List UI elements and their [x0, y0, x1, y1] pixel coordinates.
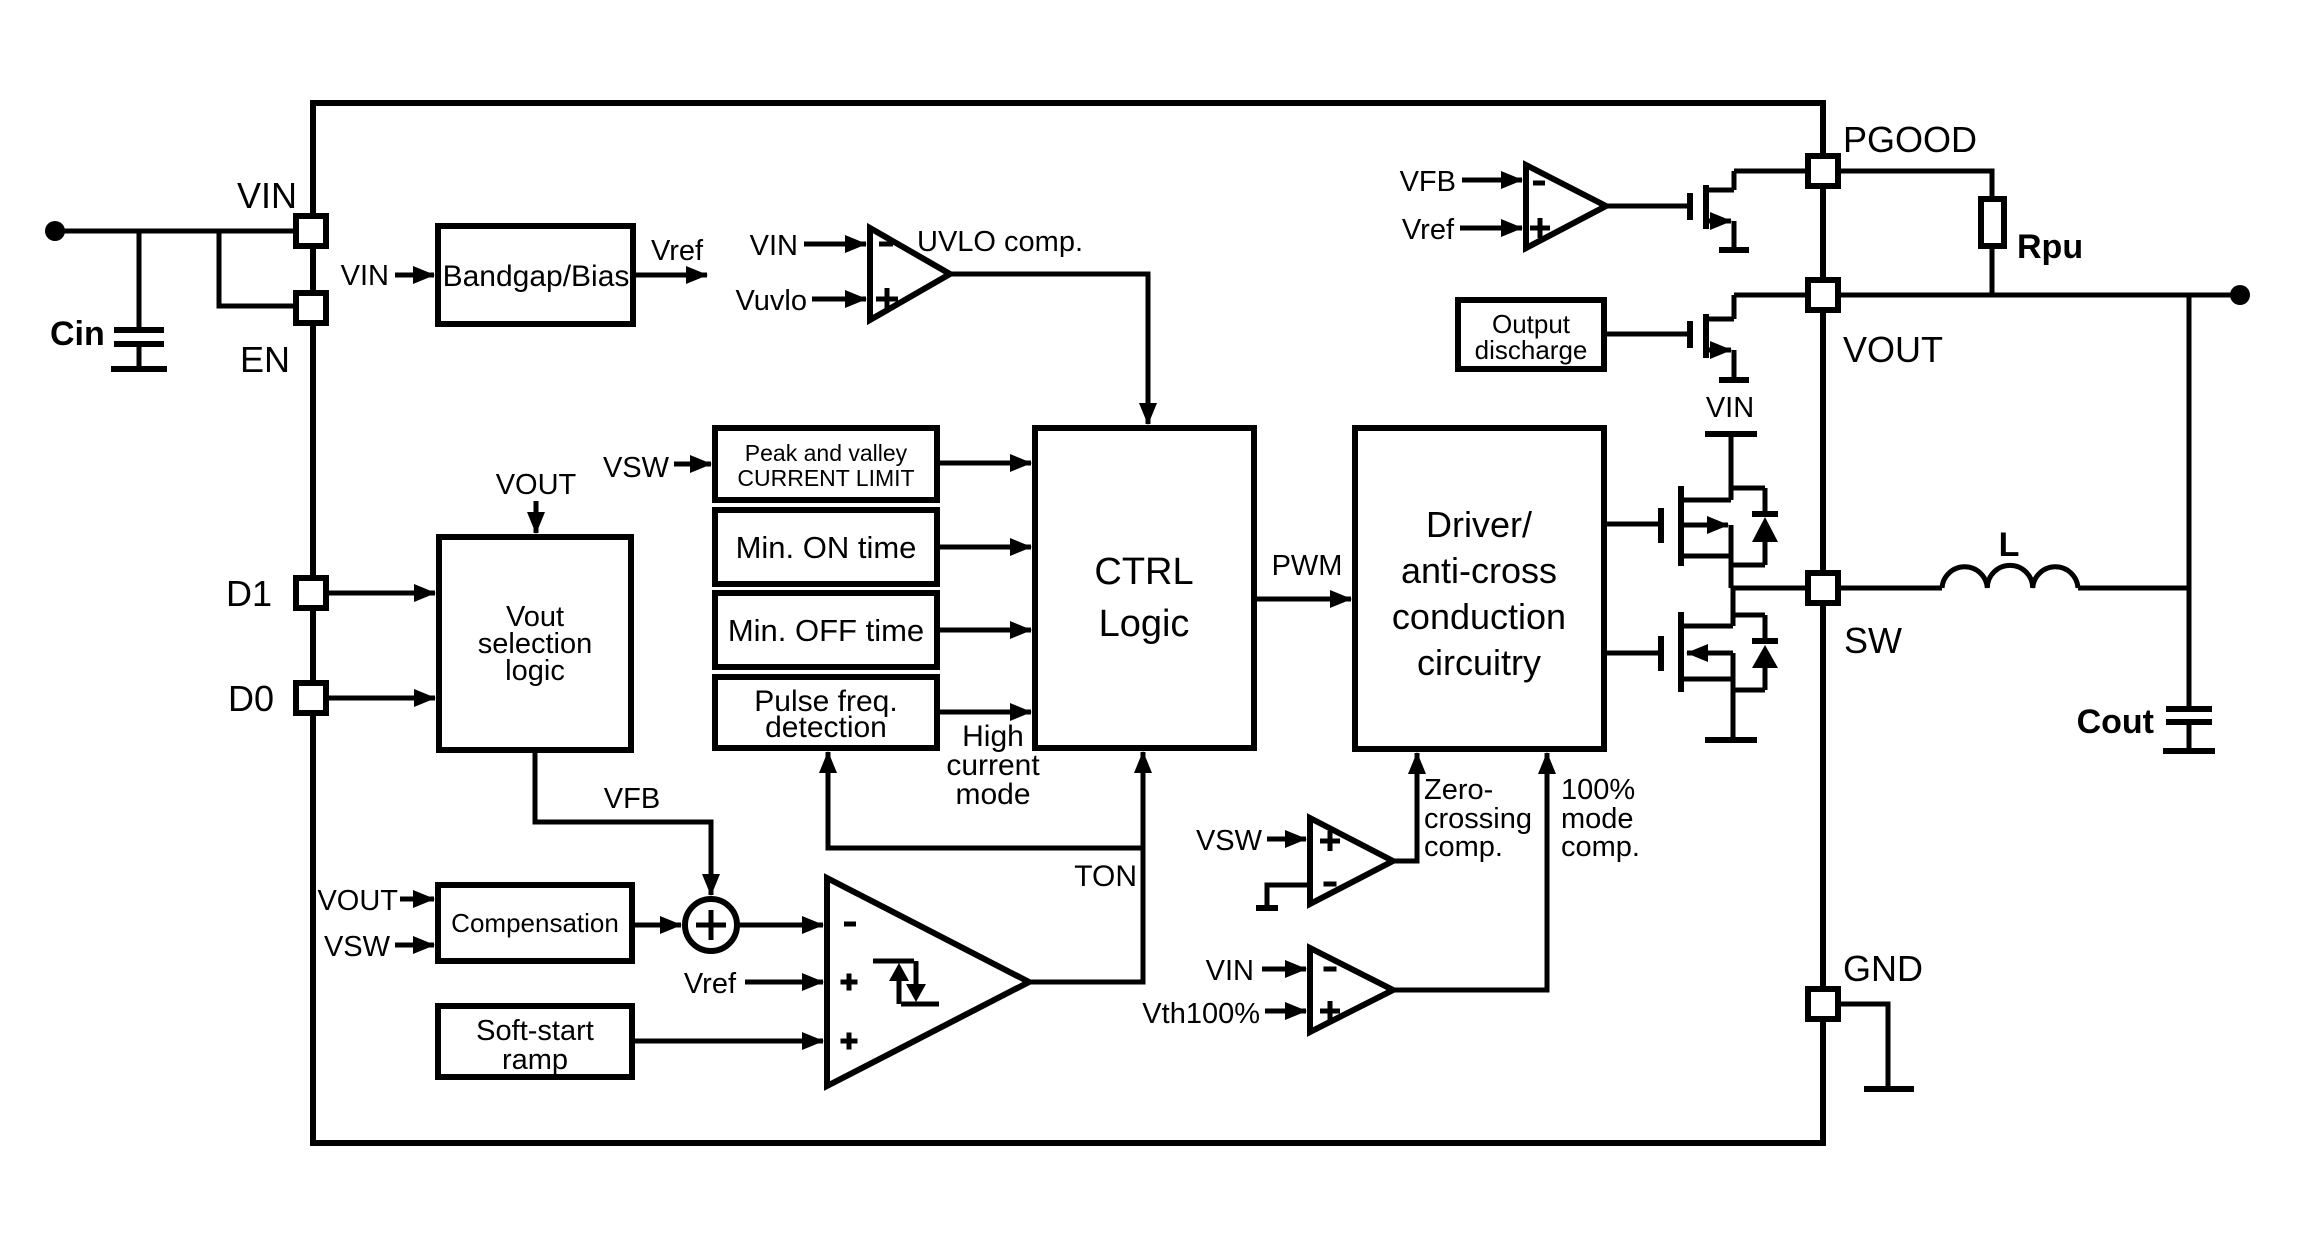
wire TON branch to pulse freq detection — [828, 752, 1143, 848]
capacitor Cin — [111, 231, 167, 369]
wire SW node — [1731, 586, 1805, 591]
box Vout selection logic — [439, 537, 631, 750]
svg-text:comp.: comp. — [1424, 831, 1503, 863]
box Min. OFF time — [715, 593, 937, 667]
box Bandgap/Bias — [438, 226, 633, 324]
svg-text:Min. ON time: Min. ON time — [736, 530, 917, 565]
wire output branch down — [2187, 295, 2192, 709]
diode high-side body diode — [1731, 488, 1778, 565]
box Output discharge — [1458, 300, 1604, 369]
box Driver / anti-cross conduction circuitry — [1355, 428, 1604, 749]
summing node — [685, 899, 737, 951]
ground — [1864, 1086, 1914, 1092]
op-amp 100% mode comparator — [1310, 948, 1393, 1032]
svg-text:conduction: conduction — [1392, 596, 1566, 637]
IC boundary — [313, 103, 1823, 1143]
wire VOUT to compensation — [400, 897, 434, 902]
wire VSW to compensation — [395, 943, 434, 948]
wire input to VIN pin — [55, 229, 296, 234]
box Peak and valley CURRENT LIMIT — [715, 428, 937, 500]
capacitor Cout — [2163, 709, 2215, 751]
wire Rpu to VOUT rail — [1990, 246, 1995, 295]
wire VSW to current limit — [674, 462, 711, 467]
wire FET drain to PGOOD pin — [1734, 169, 1805, 174]
svg-text:VIN: VIN — [1706, 392, 1754, 424]
box Soft-start ramp — [438, 1006, 632, 1077]
wire D1 to Vout selection — [329, 591, 435, 596]
wire zero-crossing output to driver — [1393, 753, 1417, 861]
svg-text:Cin: Cin — [50, 315, 105, 353]
box Compensation — [438, 885, 632, 961]
wire summing node to comparator — [737, 923, 823, 928]
wire PWM to driver — [1254, 597, 1351, 602]
svg-text:TON: TON — [1074, 860, 1137, 893]
transistor output discharge FET — [1604, 295, 1749, 380]
svg-text:Zero-: Zero- — [1424, 774, 1493, 806]
wire Vref to comparator — [745, 980, 823, 985]
label 100% mode comp. — [1561, 774, 1640, 863]
pin EN — [296, 293, 326, 323]
box CTRL Logic — [1035, 428, 1254, 748]
wire UVLO output to CTRL — [950, 274, 1148, 424]
pin VOUT — [1808, 280, 1838, 310]
label High current mode — [946, 720, 1040, 811]
svg-text:Vref: Vref — [651, 235, 704, 267]
wire SW to inductor — [1841, 586, 1942, 591]
svg-text:EN: EN — [240, 339, 290, 380]
svg-text:VIN: VIN — [750, 230, 798, 262]
wire 100% comp output to driver — [1393, 753, 1547, 990]
inductor L — [1942, 565, 2078, 588]
svg-text:comp.: comp. — [1561, 831, 1640, 863]
op-amp UVLO comparator — [870, 228, 950, 320]
pin GND — [1808, 989, 1838, 1019]
pin VIN — [296, 216, 326, 246]
svg-text:L: L — [1999, 526, 2020, 564]
svg-text:VOUT: VOUT — [317, 885, 398, 917]
wire VIN to UVLO — [804, 242, 866, 247]
svg-text:Logic: Logic — [1099, 603, 1190, 645]
svg-text:VIN: VIN — [1206, 955, 1254, 987]
resistor Rpu — [1981, 199, 2004, 246]
transistor low-side FET — [1604, 588, 1757, 740]
svg-text:Vref: Vref — [1402, 214, 1455, 246]
op-amp PGOOD comparator — [1526, 165, 1606, 248]
pin SW — [1808, 573, 1838, 603]
wire min on to CTRL — [937, 545, 1031, 550]
svg-text:GND: GND — [1843, 948, 1923, 989]
pin D0 — [296, 683, 326, 713]
svg-text:D1: D1 — [226, 573, 272, 614]
svg-text:UVLO comp.: UVLO comp. — [917, 226, 1083, 258]
svg-text:ramp: ramp — [502, 1044, 568, 1076]
pin PGOOD — [1808, 156, 1838, 186]
svg-text:Vuvlo: Vuvlo — [736, 285, 807, 317]
svg-text:Vref: Vref — [684, 968, 737, 1000]
wire PGOOD to Rpu — [1841, 171, 1992, 199]
wire Vth100% to 100% comp — [1265, 1009, 1306, 1014]
label Zero-crossing comp. — [1424, 774, 1532, 863]
svg-text:Peak and valley: Peak and valley — [745, 440, 908, 466]
transistor PGOOD open-drain FET — [1606, 171, 1749, 250]
svg-text:Compensation: Compensation — [451, 908, 619, 938]
svg-text:VIN: VIN — [237, 175, 297, 216]
op-amp TON comparator with hysteresis — [827, 878, 1029, 1086]
op-amp zero-crossing comparator — [1310, 818, 1393, 904]
svg-text:VOUT: VOUT — [496, 469, 577, 501]
svg-text:detection: detection — [765, 711, 887, 744]
wire VFB to PGOOD comp — [1462, 178, 1522, 183]
wire min off to CTRL — [937, 628, 1031, 633]
wire VFB to summing node — [535, 750, 711, 895]
wire pulse freq to CTRL — [937, 710, 1031, 715]
box Min. ON time — [715, 510, 937, 584]
wire VOUT rail — [1841, 293, 2240, 298]
svg-text:anti-cross: anti-cross — [1401, 550, 1557, 591]
box Pulse freq. detection — [715, 677, 937, 748]
svg-text:PWM: PWM — [1272, 550, 1343, 582]
svg-text:SW: SW — [1844, 620, 1902, 661]
diode low-side body diode — [1733, 615, 1778, 690]
hysteresis symbol — [873, 961, 939, 1004]
transistor high-side FET — [1604, 486, 1731, 588]
wire D0 to Vout selection — [329, 696, 435, 701]
svg-text:VOUT: VOUT — [1843, 329, 1943, 370]
svg-text:Driver/: Driver/ — [1426, 504, 1532, 545]
wire inductor to output — [2078, 586, 2189, 591]
wire VOUT into Vout selection — [534, 501, 539, 533]
svg-text:Soft-start: Soft-start — [476, 1015, 594, 1047]
svg-text:VFB: VFB — [1400, 166, 1456, 198]
node input dot — [45, 221, 65, 241]
supply VIN rail — [1705, 392, 1757, 500]
wire Vuvlo to UVLO — [812, 297, 866, 302]
svg-text:discharge: discharge — [1475, 335, 1588, 365]
svg-text:D0: D0 — [228, 678, 274, 719]
svg-text:circuitry: circuitry — [1417, 642, 1541, 683]
svg-text:Vth100%: Vth100% — [1142, 998, 1260, 1030]
wire VIN to bandgap — [395, 273, 434, 278]
svg-text:VSW: VSW — [1196, 825, 1263, 857]
svg-text:PGOOD: PGOOD — [1843, 119, 1977, 160]
svg-text:CTRL: CTRL — [1094, 551, 1193, 593]
wire EN branch — [219, 231, 296, 306]
svg-text:Cout: Cout — [2077, 703, 2154, 741]
svg-text:logic: logic — [505, 655, 565, 687]
svg-text:Rpu: Rpu — [2017, 228, 2083, 266]
wire GND pin to ground — [1841, 1004, 1888, 1088]
wire Vref output — [633, 273, 707, 278]
wire zero-crossing minus input stub — [1256, 885, 1310, 908]
svg-text:mode: mode — [955, 778, 1030, 811]
node output dot — [2230, 285, 2250, 305]
wire VSW to zero-crossing comp — [1267, 837, 1306, 842]
svg-text:Bandgap/Bias: Bandgap/Bias — [443, 260, 630, 293]
wire soft-start to comparator — [632, 1039, 823, 1044]
wire discharge FET to VOUT pin — [1734, 293, 1805, 298]
wire compensation to summing node — [632, 923, 681, 928]
wire TON comparator output to CTRL — [1029, 752, 1143, 982]
svg-text:VIN: VIN — [341, 260, 389, 292]
svg-text:100%: 100% — [1561, 774, 1635, 806]
svg-text:CURRENT LIMIT: CURRENT LIMIT — [737, 465, 914, 491]
wire current limit to CTRL — [937, 461, 1031, 466]
svg-text:Min. OFF time: Min. OFF time — [728, 613, 924, 648]
wire VIN to 100% comp — [1262, 967, 1306, 972]
svg-text:VFB: VFB — [604, 783, 660, 815]
wire Vref to PGOOD comp — [1460, 226, 1522, 231]
svg-text:VSW: VSW — [324, 931, 391, 963]
pin D1 — [296, 578, 326, 608]
svg-text:VSW: VSW — [603, 452, 670, 484]
